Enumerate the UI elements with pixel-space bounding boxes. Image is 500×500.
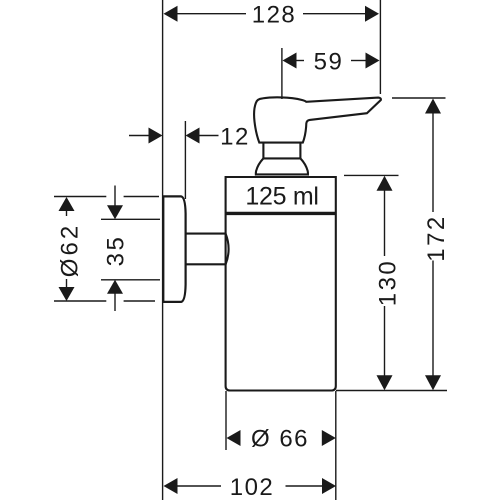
dimension 12 bbox=[129, 135, 219, 137]
dimension diameter 62 bbox=[66, 211, 68, 288]
35 bottom tick bbox=[101, 279, 160, 281]
container-right extension line (66/102 right) bbox=[335, 391, 337, 500]
pump head + lever bbox=[254, 97, 381, 142]
spout-tip level tick (172 top) bbox=[392, 97, 446, 99]
svg-text:172: 172 bbox=[423, 214, 450, 262]
dimension 35 bbox=[114, 186, 116, 312]
bracket arm bbox=[186, 234, 229, 265]
svg-text:Ø 66: Ø 66 bbox=[251, 425, 309, 452]
dimension 130 bbox=[384, 191, 386, 377]
container body bbox=[226, 177, 336, 391]
svg-text:128: 128 bbox=[252, 2, 297, 29]
svg-text:59: 59 bbox=[314, 48, 344, 75]
plate-bottom tick (62 bottom) bbox=[54, 300, 106, 302]
container-top level tick (130 top) bbox=[344, 174, 399, 176]
35 top tick bbox=[101, 218, 160, 220]
dimension 59 bbox=[296, 60, 366, 62]
svg-text:125 ml: 125 ml bbox=[245, 183, 318, 211]
plate-top tick (62 top) bbox=[54, 196, 106, 198]
dimension diameter 66 bbox=[227, 430, 336, 446]
container-left extension line (66 left) bbox=[225, 391, 227, 450]
container label line (thick) bbox=[226, 212, 336, 215]
pump flare bbox=[256, 158, 308, 175]
svg-text:130: 130 bbox=[375, 259, 402, 307]
spout-tip extension line (128/59 right) bbox=[379, 0, 381, 94]
svg-text:102: 102 bbox=[230, 474, 275, 500]
dimension 128 bbox=[176, 13, 366, 15]
svg-text:12: 12 bbox=[220, 123, 250, 150]
wall plate bbox=[163, 196, 185, 302]
wall extension line bbox=[162, 0, 164, 500]
svg-text:Ø62: Ø62 bbox=[57, 223, 84, 277]
pump-top extension line (59 left) bbox=[281, 48, 283, 99]
svg-text:35: 35 bbox=[103, 235, 130, 267]
dimension 172 bbox=[432, 113, 434, 376]
pump neck bbox=[263, 143, 300, 159]
plate-right extension line (12) bbox=[184, 121, 186, 199]
dimension 102 bbox=[177, 485, 323, 487]
container-bottom level tick (130/172 bottom) bbox=[336, 390, 447, 392]
